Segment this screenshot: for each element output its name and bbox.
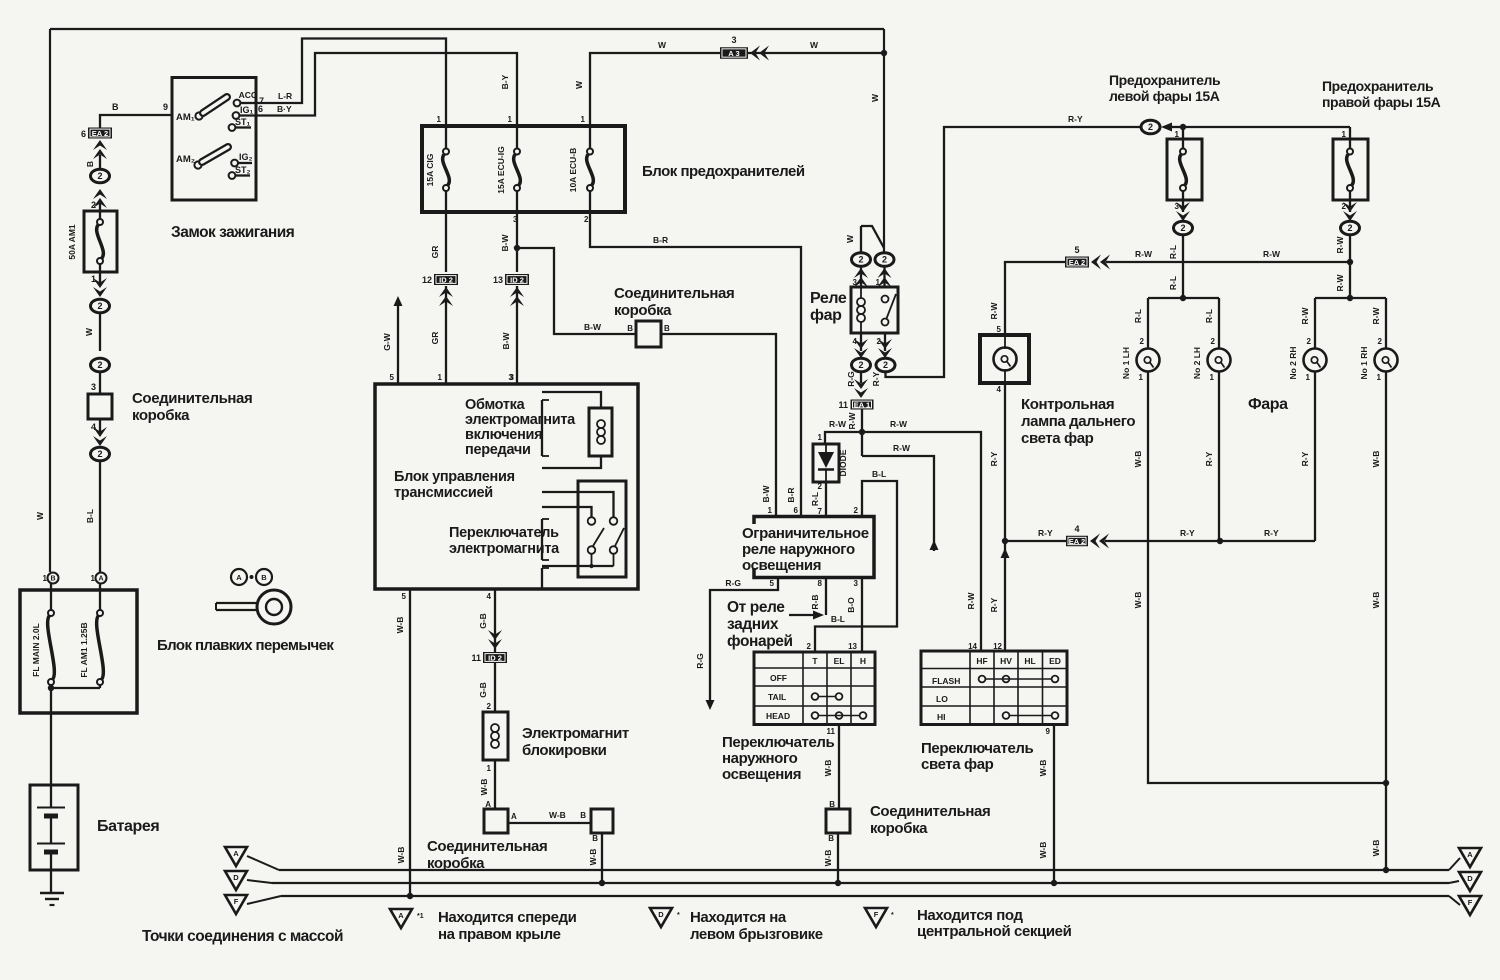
svg-text:R-W: R-W — [1300, 307, 1310, 325]
label Контрольная лампа дальнего света фар — [1021, 396, 1135, 447]
wire relay pin 4 — [853, 333, 868, 358]
svg-text:6: 6 — [81, 129, 86, 139]
svg-text:R-W: R-W — [890, 419, 908, 429]
svg-text:B: B — [664, 324, 670, 333]
svg-text:EA 2: EA 2 — [1069, 537, 1085, 546]
arrow left into EA3 — [750, 46, 769, 61]
svg-text:1: 1 — [768, 506, 773, 515]
legend triangle F — [865, 908, 894, 927]
svg-text:5: 5 — [770, 579, 775, 588]
svg-text:Ограничительное: Ограничительное — [742, 525, 869, 542]
svg-text:на правом крыле: на правом крыле — [438, 926, 561, 943]
svg-text:13: 13 — [848, 642, 857, 651]
svg-text:Батарея: Батарея — [97, 818, 159, 835]
svg-text:B-R: B-R — [786, 487, 796, 502]
svg-text:*1: *1 — [417, 913, 424, 920]
svg-text:ED: ED — [1049, 656, 1061, 666]
svg-text:R-Y: R-Y — [1264, 528, 1279, 538]
svg-text:F: F — [1468, 898, 1473, 907]
icon circled B — [256, 569, 272, 585]
battery box — [30, 785, 78, 870]
svg-text:2: 2 — [97, 449, 102, 459]
connector ID2 (12) — [422, 274, 458, 306]
svg-text:2: 2 — [97, 301, 102, 311]
svg-text:*: * — [677, 912, 680, 919]
svg-text:No 1 LH: No 1 LH — [1121, 347, 1131, 379]
svg-text:IG₁: IG₁ — [240, 105, 254, 115]
svg-text:2: 2 — [1307, 337, 1312, 346]
connector oval 2 below 50A AM1 — [84, 299, 110, 351]
svg-text:R-W: R-W — [1263, 249, 1281, 259]
solenoid switch box in transmission block — [578, 481, 626, 577]
right headlight fuse output — [1342, 200, 1357, 221]
svg-text:центральной секцией: центральной секцией — [917, 923, 1072, 940]
label Переключатель света фар — [921, 740, 1034, 773]
svg-text:блокировки: блокировки — [522, 742, 607, 759]
svg-text:R-Y: R-Y — [1180, 528, 1195, 538]
svg-text:EA 1: EA 1 — [854, 400, 870, 409]
svg-text:15A CIG: 15A CIG — [425, 153, 435, 186]
label Замок зажигания — [171, 224, 294, 241]
label Предохранитель левой фары 15А — [1109, 72, 1221, 104]
svg-text:G-B: G-B — [478, 613, 488, 629]
svg-text:4: 4 — [91, 422, 96, 432]
svg-text:2: 2 — [882, 255, 887, 265]
svg-text:EA 2: EA 2 — [1069, 258, 1085, 267]
wire W from fuse 10A ECU-B up and right to EA3 junction — [574, 40, 884, 126]
outer light switch row labels — [766, 673, 790, 721]
svg-text:A 3: A 3 — [728, 49, 739, 58]
svg-text:5: 5 — [402, 592, 407, 601]
svg-text:W-B: W-B — [1133, 592, 1143, 609]
node junction of W wire and EA3 branch — [881, 50, 887, 56]
svg-text:Предохранитель: Предохранитель — [1322, 78, 1434, 94]
svg-text:R-L: R-L — [810, 492, 820, 506]
connector oval on R-Y line — [1141, 120, 1183, 134]
label pin 3 fuse block — [513, 215, 518, 224]
svg-text:электромагнита: электромагнита — [465, 412, 576, 428]
svg-text:IG₂: IG₂ — [239, 152, 253, 162]
svg-text:3: 3 — [731, 35, 736, 45]
svg-text:R-W: R-W — [989, 302, 999, 320]
svg-text:4: 4 — [487, 592, 492, 601]
svg-text:W-B: W-B — [823, 760, 833, 777]
svg-text:A: A — [1467, 850, 1473, 859]
svg-text:No 1 RH: No 1 RH — [1359, 346, 1369, 379]
svg-text:D: D — [233, 873, 239, 882]
label Переключатель электромагнита — [449, 525, 560, 557]
wire R-Y from lamp No2 RH — [1300, 372, 1315, 542]
svg-text:5: 5 — [390, 373, 395, 382]
wire B from connector EA2 to ignition AM1 pin 9 — [100, 102, 172, 128]
svg-text:2: 2 — [818, 482, 823, 491]
svg-text:2: 2 — [807, 642, 812, 651]
svg-text:B-R: B-R — [653, 235, 668, 245]
label pin 1 of 50A AM1 fuse — [91, 272, 100, 286]
svg-text:Находится на: Находится на — [690, 909, 787, 926]
svg-text:2: 2 — [854, 506, 859, 515]
svg-text:ST₂: ST₂ — [235, 165, 251, 175]
ignition switch contact AM1 — [176, 97, 227, 123]
ignition switch contact ST2 — [229, 165, 251, 179]
svg-text:Контрольная: Контрольная — [1021, 396, 1114, 413]
ground point triangle A right — [1459, 848, 1481, 867]
svg-text:1: 1 — [1210, 373, 1215, 382]
svg-text:левом брызговике: левом брызговике — [690, 926, 823, 943]
right lamps branch — [1300, 298, 1386, 349]
fuse 15A ECU-IG — [496, 126, 520, 212]
svg-text:11: 11 — [838, 400, 848, 410]
fuse 15A CIG — [425, 126, 449, 212]
wire GR from 15A CIG to transmission pin 1 — [430, 212, 446, 384]
svg-text:W: W — [810, 40, 819, 50]
outer light switch header — [812, 656, 866, 666]
label Блок предохранителей — [642, 163, 805, 180]
svg-text:8: 8 — [818, 579, 823, 588]
svg-text:A: A — [398, 911, 404, 920]
svg-text:EA 2: EA 2 — [92, 129, 108, 138]
svg-text:R-W: R-W — [1135, 249, 1153, 259]
legend text D — [690, 909, 823, 943]
connector oval 2 above junction box — [91, 358, 110, 394]
svg-text:2: 2 — [858, 360, 863, 370]
svg-text:B-L: B-L — [831, 614, 845, 624]
label Предохранитель правой фары 15А — [1322, 78, 1441, 110]
label Батарея — [97, 818, 159, 835]
svg-text:F: F — [874, 910, 879, 919]
arrow from rear lights relay — [789, 611, 824, 620]
svg-text:наружного: наружного — [722, 750, 798, 767]
terminal 1-B of fusible link block — [43, 573, 59, 591]
fuse 50A AM1 box — [67, 211, 117, 272]
svg-text:левой фары 15А: левой фары 15А — [1109, 88, 1220, 104]
headlight relay contact — [882, 294, 897, 326]
svg-text:R-W: R-W — [1335, 236, 1345, 254]
svg-text:W-B: W-B — [588, 849, 598, 866]
svg-text:электромагнита: электромагнита — [449, 541, 560, 557]
connector oval 2 on B wire — [91, 169, 110, 183]
svg-text:освещения: освещения — [742, 557, 821, 574]
wire R-Y to fuses — [1175, 124, 1350, 139]
svg-text:HF: HF — [976, 656, 987, 666]
svg-text:2: 2 — [1378, 337, 1383, 346]
headlight switch row labels — [932, 676, 960, 722]
svg-text:B-W: B-W — [500, 234, 510, 252]
svg-text:4: 4 — [997, 385, 1002, 394]
ground point triangle F left — [225, 895, 281, 914]
ignition switch box (Замок зажигания) — [172, 78, 256, 201]
svg-text:15A ECU-IG: 15A ECU-IG — [496, 146, 506, 194]
wire R-Y from control lamp pin 4 to headlight switch pin 12 — [989, 383, 1010, 651]
locking solenoid box (Электромагнит блокировки) — [483, 712, 508, 760]
wire R-L from diode to limiting relay pin 7 — [810, 482, 826, 517]
svg-text:R-Y: R-Y — [1068, 114, 1083, 124]
svg-text:12: 12 — [422, 275, 432, 285]
svg-text:DIODE: DIODE — [838, 449, 848, 476]
svg-text:W-B: W-B — [1371, 840, 1381, 857]
svg-text:R-Y: R-Y — [1300, 451, 1310, 466]
svg-text:B-W: B-W — [501, 332, 511, 350]
wire battery to ground — [50, 870, 52, 893]
wire R-W from EA2-5 to control lamp — [989, 262, 1065, 335]
wire W-B from transmission pin 5 bottom to ground bus — [395, 589, 413, 899]
headlight switch header — [976, 656, 1061, 666]
svg-text:2: 2 — [1140, 337, 1145, 346]
svg-text:B-W: B-W — [761, 485, 771, 503]
label pin 2 fuse block — [584, 215, 589, 224]
svg-text:Переключатель: Переключатель — [449, 525, 559, 541]
svg-text:2: 2 — [487, 702, 492, 711]
svg-text:TAIL: TAIL — [768, 692, 786, 702]
wire W branch into relay coil — [845, 226, 884, 252]
svg-text:R-W: R-W — [847, 412, 857, 430]
junction box (Соединительная коробка) left — [88, 394, 112, 419]
svg-text:A: A — [511, 812, 517, 821]
svg-text:W-B: W-B — [1038, 842, 1048, 859]
svg-text:От реле: От реле — [727, 599, 785, 616]
svg-text:Находится спереди: Находится спереди — [438, 909, 577, 926]
svg-text:Соединительная: Соединительная — [132, 390, 252, 407]
svg-text:B-W: B-W — [584, 322, 602, 332]
svg-text:6: 6 — [258, 104, 263, 114]
svg-text:AM₂: AM₂ — [176, 154, 195, 165]
arrow down out of 50A AM1 — [93, 278, 107, 297]
svg-text:OFF: OFF — [770, 673, 787, 683]
label Переключатель наружного освещения — [722, 734, 835, 783]
connector oval below right fuse — [1335, 221, 1360, 301]
wire from fusible link to battery — [50, 713, 52, 785]
svg-text:2: 2 — [1347, 223, 1352, 233]
wire W-B between junction boxes — [508, 810, 591, 823]
svg-text:7: 7 — [818, 507, 823, 516]
wire W left vertical from top corner down to fusible link terminal B — [35, 29, 50, 572]
connector ID2 (11) — [471, 652, 507, 663]
ignition switch contact IG2 — [231, 152, 252, 166]
label Реле фар — [810, 290, 847, 324]
svg-text:No 2 RH: No 2 RH — [1288, 346, 1298, 379]
label pin 3 junction box — [91, 382, 96, 392]
label pin 4 junction box — [91, 419, 100, 435]
solenoid switch contacts — [542, 492, 624, 568]
svg-text:Точки соединения с массой: Точки соединения с массой — [142, 928, 343, 945]
svg-text:Блок предохранителей: Блок предохранителей — [642, 163, 805, 180]
wire B-Y from ignition IG1 pin 6 to fuse 15A ECU-IG — [256, 53, 517, 126]
svg-text:FLASH: FLASH — [932, 676, 960, 686]
svg-text:реле наружного: реле наружного — [742, 541, 855, 558]
headlamp No 1 LH — [1121, 337, 1160, 382]
wire W-B from outer light switch pin 11 — [823, 725, 839, 810]
svg-text:R-G: R-G — [725, 578, 741, 588]
svg-text:R-Y: R-Y — [871, 371, 881, 386]
arrow down to EA1 — [854, 379, 868, 398]
arrow down below junction box — [93, 427, 107, 446]
label Блок управления трансмиссией — [394, 469, 515, 501]
svg-text:B: B — [627, 324, 633, 333]
wire B-L loop from limiting relay pin 2 to light switch — [807, 469, 897, 652]
svg-text:4: 4 — [1074, 524, 1079, 534]
headlamp No 2 RH — [1288, 337, 1327, 382]
svg-text:фар: фар — [810, 307, 842, 324]
label Фара — [1248, 396, 1288, 413]
headlight relay coil — [857, 287, 865, 333]
label pin 3 transmission top — [510, 373, 515, 382]
svg-text:H: H — [860, 656, 866, 666]
svg-text:R-W: R-W — [829, 419, 847, 429]
svg-text:R-L: R-L — [1168, 245, 1178, 259]
svg-text:F: F — [234, 897, 239, 906]
outer light switch TAIL contacts — [812, 693, 843, 700]
junction box B-W (Соединительная коробка) — [627, 321, 670, 347]
svg-text:B-L: B-L — [85, 509, 95, 523]
wire R-W to flasher arrow — [862, 443, 939, 551]
ground point triangle D right — [1459, 872, 1481, 891]
fusible link block box (Блок плавких перемычек) — [20, 590, 137, 713]
svg-text:задних: задних — [727, 616, 779, 633]
svg-text:R-W: R-W — [966, 592, 976, 610]
svg-text:W-B: W-B — [479, 779, 489, 796]
svg-text:ID 2: ID 2 — [488, 653, 502, 662]
svg-text:Переключатель: Переключатель — [921, 740, 1034, 757]
outer light switch grid — [754, 652, 875, 725]
svg-text:R-B: R-B — [810, 594, 820, 609]
svg-text:Блок управления: Блок управления — [394, 469, 515, 485]
svg-text:3: 3 — [854, 579, 859, 588]
svg-text:Соединительная: Соединительная — [427, 838, 547, 855]
svg-text:W-B: W-B — [396, 847, 406, 864]
svg-text:GR: GR — [430, 246, 440, 259]
legend text A — [438, 909, 577, 943]
left headlight fuse box — [1167, 127, 1202, 200]
svg-text:Соединительная: Соединительная — [614, 285, 734, 302]
legend triangle A — [390, 909, 424, 928]
svg-text:W-B: W-B — [1371, 592, 1381, 609]
outer light switch table box — [754, 652, 875, 725]
headlamp No 1 RH — [1359, 337, 1398, 382]
svg-text:B: B — [580, 811, 586, 820]
svg-text:A: A — [233, 849, 239, 858]
svg-text:передачи: передачи — [465, 442, 531, 458]
svg-text:2: 2 — [584, 215, 589, 224]
svg-text:10A ECU-B: 10A ECU-B — [568, 148, 578, 193]
connector EA2 (5) — [1065, 245, 1089, 268]
wire W-B from headlight switch pin 9 to ground bus — [1038, 725, 1057, 887]
svg-text:EL: EL — [834, 656, 845, 666]
wire W-B from lamp No1 LH to ground — [1133, 372, 1389, 787]
node fusible link common — [48, 685, 100, 713]
ground bus line A — [279, 858, 1460, 870]
ring terminal icon — [216, 590, 291, 624]
svg-text:5: 5 — [997, 325, 1002, 334]
wire R-B limiting relay pin 8 — [810, 578, 826, 616]
legend triangle D — [650, 908, 680, 927]
svg-text:LO: LO — [936, 694, 948, 704]
svg-text:1: 1 — [581, 115, 586, 124]
headlight switch FLASH contacts — [979, 676, 1059, 683]
svg-text:W: W — [658, 40, 667, 50]
connector EA2 (6) — [81, 128, 112, 140]
svg-text:2: 2 — [97, 171, 102, 181]
svg-text:лампа дальнего: лампа дальнего — [1021, 413, 1135, 430]
svg-text:коробка: коробка — [870, 820, 928, 837]
svg-text:Соединительная: Соединительная — [870, 803, 990, 820]
svg-text:2: 2 — [91, 200, 96, 210]
svg-text:L-R: L-R — [278, 91, 292, 101]
svg-text:W-B: W-B — [1371, 451, 1381, 468]
fusible link FL AM1 1.25B — [79, 590, 103, 688]
svg-text:W-B: W-B — [1133, 451, 1143, 468]
svg-text:B: B — [261, 573, 267, 582]
wire W-B from locking solenoid to junction box A — [479, 760, 495, 809]
ground bus line F — [281, 896, 1460, 905]
svg-text:Предохранитель: Предохранитель — [1109, 72, 1221, 88]
junction box below outer light switch — [826, 809, 850, 833]
icon dot between A and B — [250, 575, 254, 579]
connector EA2 (4) — [1066, 524, 1088, 546]
svg-text:R-G: R-G — [846, 371, 856, 387]
svg-text:правой фары 15А: правой фары 15А — [1322, 94, 1441, 110]
svg-text:W: W — [84, 327, 94, 336]
wire L-R from ignition ACC pin 7 to fuse 15A CIG — [256, 39, 446, 127]
left lamps branch — [1133, 298, 1219, 349]
svg-text:2: 2 — [883, 360, 888, 370]
wire B-W from 15A ECU-IG to transmission pin 3 — [500, 212, 520, 384]
svg-text:R-Y: R-Y — [1204, 451, 1214, 466]
connector oval relay pin 3 — [852, 253, 871, 287]
svg-text:1: 1 — [487, 764, 492, 773]
svg-text:1: 1 — [91, 274, 96, 284]
transmission control block box — [375, 384, 638, 589]
arrow up into EA2 — [85, 140, 107, 168]
svg-text:No 2 LH: No 2 LH — [1192, 347, 1202, 379]
wire G-B to locking solenoid — [478, 663, 495, 712]
junction box B — [591, 809, 613, 833]
wire B-R from 10A ECU-B to limiting relay pin 6 — [590, 212, 801, 517]
ground point triangle D left — [225, 871, 272, 890]
fuse block box (Блок предохранителей) — [422, 126, 625, 212]
svg-text:*: * — [891, 912, 894, 919]
headlight switch grid — [921, 651, 1067, 725]
label pin 12 headlight switch — [993, 642, 1002, 651]
svg-text:ACC: ACC — [239, 90, 257, 100]
svg-text:B-Y: B-Y — [500, 74, 510, 89]
connector EA3 — [720, 35, 748, 59]
connector oval relay pin 2 — [871, 358, 895, 386]
wire R-Y from EA2-4 to left — [1005, 528, 1066, 541]
svg-text:1: 1 — [508, 115, 513, 124]
svg-text:6: 6 — [794, 506, 799, 515]
svg-text:HV: HV — [1000, 656, 1012, 666]
headlight relay box — [851, 287, 898, 333]
svg-text:HEAD: HEAD — [766, 711, 790, 721]
svg-text:R-G: R-G — [695, 653, 705, 669]
svg-text:R-Y: R-Y — [989, 597, 999, 612]
svg-text:включения: включения — [465, 427, 542, 443]
wire R-G from limiting relay pin 5 — [695, 578, 778, 711]
svg-text:1: 1 — [818, 433, 823, 442]
svg-text:2: 2 — [858, 255, 863, 265]
svg-text:R-L: R-L — [1133, 309, 1143, 323]
svg-text:Блок плавких перемычек: Блок плавких перемычек — [157, 637, 334, 654]
svg-text:9: 9 — [163, 102, 168, 112]
solenoid winding box in transmission block — [542, 392, 612, 468]
svg-text:W: W — [870, 93, 880, 102]
ignition switch contact ST1 — [229, 117, 251, 131]
connector oval relay pin 4 — [846, 358, 871, 387]
svg-text:W: W — [845, 234, 855, 243]
label Соединительная коробка left — [132, 390, 252, 424]
svg-text:3: 3 — [91, 382, 96, 392]
svg-text:фонарей: фонарей — [727, 633, 793, 650]
